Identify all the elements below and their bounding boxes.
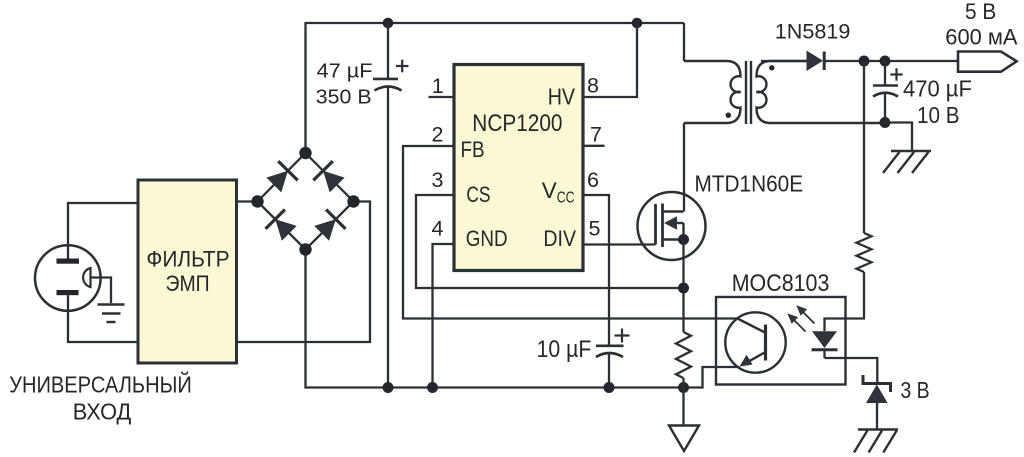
svg-text:47 µF: 47 µF	[317, 59, 373, 82]
wire: filter bottom out to bridge right	[237, 202, 371, 343]
svg-text:10 µF: 10 µF	[537, 336, 592, 363]
wire: R1 to rail	[682, 378, 684, 388]
bridge diode D1 (left-top, toward top)	[266, 161, 297, 192]
ground: chassis ground secondary	[883, 151, 931, 173]
diode D5 1N5819	[807, 51, 825, 72]
node: bridge bottom	[299, 243, 311, 255]
transformer T1	[684, 61, 885, 124]
wire: FB pin 2 to optocoupler	[403, 146, 738, 319]
svg-text:ФИЛЬТР: ФИЛЬТР	[146, 246, 229, 271]
wire: diode to output	[824, 60, 958, 62]
svg-text:4: 4	[432, 216, 444, 240]
pin 7 stub	[583, 145, 605, 147]
zener D6 3V	[863, 375, 891, 403]
LED in optocoupler	[812, 331, 838, 358]
EMI filter block	[138, 180, 237, 363]
ground: chassis ground zener	[854, 430, 898, 453]
wire: secondary top to diode	[761, 60, 807, 62]
wire: source down	[682, 240, 684, 333]
svg-text:2: 2	[432, 122, 444, 146]
wire: HV pin 8 to top rail	[583, 23, 637, 97]
svg-text:MTD1N60E: MTD1N60E	[695, 171, 804, 197]
svg-text:7: 7	[590, 122, 602, 146]
svg-text:1: 1	[432, 74, 444, 98]
node: bridge left	[251, 195, 263, 207]
wire: primary top lead drop	[683, 23, 685, 61]
core	[745, 61, 747, 124]
node: output junction at R2	[859, 56, 870, 67]
bridge diode D4 (bottom-right, toward right)	[314, 210, 345, 241]
wire: CS pin 3 to sense node	[416, 195, 684, 288]
svg-text:CS: CS	[466, 182, 490, 207]
wire: top HV rail	[306, 23, 685, 153]
node: rail dot at C1	[383, 382, 394, 393]
bridge diode D3 (bottom-left, toward left)	[266, 210, 297, 241]
bridge rectifier diamond	[258, 153, 354, 250]
svg-text:УНИВЕРСАЛЬНЫЙ: УНИВЕРСАЛЬНЫЙ	[9, 372, 192, 398]
ground: earth ground at plug	[98, 305, 125, 323]
resistor R1 sense	[676, 332, 691, 378]
svg-text:3 В: 3 В	[900, 377, 929, 403]
AC plug P1	[35, 245, 101, 311]
svg-text:NCP1200: NCP1200	[472, 110, 562, 137]
wire: plug top to filter	[68, 203, 138, 245]
svg-text:DIV: DIV	[543, 226, 576, 251]
node: CS junction	[678, 283, 689, 294]
node: source dot	[678, 234, 689, 245]
wire: VCC pin 6 to C3	[583, 195, 609, 346]
output connector arrow	[958, 52, 1017, 72]
phase dot secondary	[769, 65, 774, 70]
wire: LED cathode to zener	[825, 358, 878, 384]
svg-text:600 мА: 600 мА	[945, 24, 1018, 49]
wire: 5V rail down to R2	[863, 61, 865, 233]
capacitor C1 47uF 350V	[373, 23, 409, 388]
node: rail dot at GND pin	[427, 382, 438, 393]
pin 1 stub	[429, 96, 455, 98]
svg-text:1N5819: 1N5819	[775, 19, 851, 44]
node: bridge right	[347, 195, 359, 207]
svg-text:5 В: 5 В	[965, 0, 996, 24]
svg-text:470 µF: 470 µF	[903, 76, 972, 102]
IC U1 NCP1200	[454, 65, 583, 271]
svg-text:MOC8103: MOC8103	[732, 271, 830, 297]
node: junction dot top rail at HV	[632, 18, 643, 29]
optocoupler U2 MOC8103	[716, 297, 846, 385]
svg-text:HV: HV	[548, 84, 576, 110]
wire: bridge bottom to ground rail	[306, 250, 740, 388]
LED light arrows	[787, 305, 814, 331]
svg-text:ВХОД: ВХОД	[73, 398, 132, 424]
node: rail dot at R1	[678, 382, 689, 393]
node: junction dot top rail at C1	[383, 18, 394, 29]
capacitor C2 470uF 10V	[873, 61, 903, 123]
svg-text:V: V	[542, 178, 557, 203]
secondary winding	[757, 61, 886, 123]
primary winding	[684, 61, 741, 123]
svg-text:5: 5	[589, 217, 601, 241]
wire: filter top out to bridge left	[237, 200, 258, 202]
wire: R2 to LED anode	[825, 272, 865, 331]
phase dot primary	[726, 113, 731, 118]
svg-text:10 В: 10 В	[917, 102, 960, 128]
svg-text:FB: FB	[461, 137, 485, 162]
MOSFET Q1 MTD1N60E	[638, 192, 706, 260]
capacitor C3 10uF	[596, 329, 630, 388]
wire: zener to ground	[876, 403, 878, 429]
wire: rail to signal ground	[682, 388, 684, 426]
wire: DRV pin 5 to gate	[583, 243, 656, 245]
svg-text:3: 3	[432, 168, 444, 192]
phototransistor	[725, 312, 785, 372]
svg-text:ЭМП: ЭМП	[166, 271, 210, 296]
wire: GND pin 4 to rail	[433, 244, 455, 388]
wire: primary bottom to MOSFET drain	[683, 123, 685, 212]
node: output junction at C2	[880, 56, 891, 67]
svg-text:GND: GND	[466, 226, 508, 251]
svg-text:6: 6	[587, 168, 599, 192]
node: bridge top	[299, 147, 311, 159]
svg-text:8: 8	[587, 74, 599, 98]
svg-text:CC: CC	[557, 190, 575, 207]
wire: plug bottom to filter	[68, 311, 138, 342]
svg-text:350 В: 350 В	[316, 86, 372, 109]
resistor R2	[857, 233, 872, 272]
wire: plug ground pigtail	[91, 278, 111, 304]
node: rail dot at C3	[604, 382, 615, 393]
node: secondary return junction	[880, 117, 891, 128]
ground: signal ground triangle	[669, 426, 699, 452]
bridge diode D2 (right-top, toward top)	[313, 161, 344, 192]
wire: to secondary ground	[885, 123, 912, 151]
